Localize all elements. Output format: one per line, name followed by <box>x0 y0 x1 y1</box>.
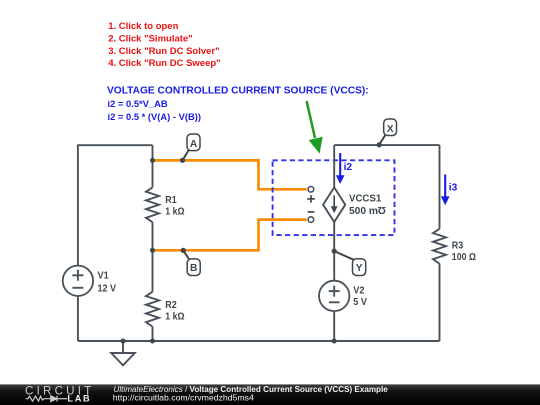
voltage source V2 <box>319 281 349 311</box>
node dot R2 bottom <box>150 339 155 344</box>
wire between R1 R2 <box>152 222 154 292</box>
wire V2 bottom <box>333 311 335 341</box>
footer bar <box>0 384 540 405</box>
wire left loop top <box>78 145 153 265</box>
svg-text:i2 = 0.5 * (V(A) - V(B)): i2 = 0.5 * (V(A) - V(B)) <box>108 111 202 122</box>
svg-text:V1: V1 <box>98 271 109 282</box>
svg-text:1. Click to open: 1. Click to open <box>108 21 178 32</box>
annotation blue VCCS description <box>107 86 369 123</box>
label VCCS1 <box>349 193 386 217</box>
svg-text:2. Click "Simulate": 2. Click "Simulate" <box>108 33 193 44</box>
svg-text:B: B <box>190 263 197 274</box>
svg-text:100 Ω: 100 Ω <box>452 252 476 263</box>
wire R2 bottom <box>152 327 154 341</box>
VCCS plus sign <box>307 195 314 202</box>
wire node A orange <box>153 160 307 189</box>
svg-text:X: X <box>387 124 394 135</box>
label R3 <box>452 240 476 263</box>
svg-text:VCCS1: VCCS1 <box>349 193 382 204</box>
VCCS input terminal + <box>308 187 314 193</box>
node label X <box>377 119 397 147</box>
node label Y <box>332 249 366 276</box>
svg-text:R3: R3 <box>452 240 464 251</box>
wire bottom rail <box>78 340 440 342</box>
annotation red instructions <box>108 21 220 69</box>
label R2 <box>165 300 184 323</box>
dashed VCCS box <box>273 160 395 235</box>
svg-text:4. Click "Run DC Sweep": 4. Click "Run DC Sweep" <box>108 58 220 69</box>
green annotation arrow <box>307 101 323 154</box>
svg-text:R1: R1 <box>165 195 177 206</box>
wire VCCS bottom <box>333 222 335 281</box>
current arrow i3 <box>441 175 458 206</box>
svg-text:http://circuitlab.com/crvmedzh: http://circuitlab.com/crvmedzhd5ms4 <box>113 393 254 403</box>
resistor R3 <box>433 229 446 264</box>
label V2 <box>353 285 367 308</box>
svg-text:1 kΩ: 1 kΩ <box>165 312 184 323</box>
svg-text:i2 = 0.5*V_AB: i2 = 0.5*V_AB <box>108 98 168 109</box>
VCCS input terminal - <box>308 217 314 223</box>
wire top rail <box>334 144 439 146</box>
node label B <box>181 248 201 276</box>
svg-text:3. Click "Run DC Solver": 3. Click "Run DC Solver" <box>108 46 219 57</box>
svg-text:VOLTAGE CONTROLLED CURRENT SOU: VOLTAGE CONTROLLED CURRENT SOURCE (VCCS)… <box>107 86 369 97</box>
svg-text:1 kΩ: 1 kΩ <box>165 207 184 218</box>
wire VCCS top <box>333 145 335 187</box>
voltage source V1 <box>63 266 93 296</box>
node label A <box>180 134 200 163</box>
wire right rail upper <box>439 145 441 229</box>
label V1 <box>98 271 117 295</box>
resistor R2 <box>146 292 159 327</box>
svg-text:LAB: LAB <box>67 393 91 403</box>
wire R branch upper <box>152 145 154 187</box>
svg-text:5 V: 5 V <box>353 297 367 308</box>
resistor R1 <box>146 187 159 222</box>
svg-text:Y: Y <box>356 263 363 274</box>
node dot V2 bottom <box>332 339 337 344</box>
current arrow i2 <box>336 153 353 184</box>
svg-text:i2: i2 <box>344 162 353 173</box>
footer logo schematic <box>26 396 68 402</box>
ground <box>111 341 135 365</box>
svg-text:A: A <box>190 139 198 150</box>
svg-text:R2: R2 <box>165 300 177 311</box>
label R1 <box>165 195 184 218</box>
current source VCCS1 <box>323 187 345 222</box>
node dot B junction <box>150 248 155 253</box>
node dot A junction <box>150 158 155 163</box>
wire right rail lower <box>439 264 441 341</box>
node dot ground junction <box>121 339 126 344</box>
svg-text:i3: i3 <box>449 182 458 193</box>
wire left lower <box>77 296 79 341</box>
VCCS minus sign <box>308 211 315 213</box>
svg-text:500 m: 500 m <box>349 206 378 217</box>
svg-text:12 V: 12 V <box>98 284 117 295</box>
svg-text:V2: V2 <box>353 285 364 296</box>
svg-text:Ω: Ω <box>378 204 386 215</box>
wire node B orange <box>153 220 307 251</box>
